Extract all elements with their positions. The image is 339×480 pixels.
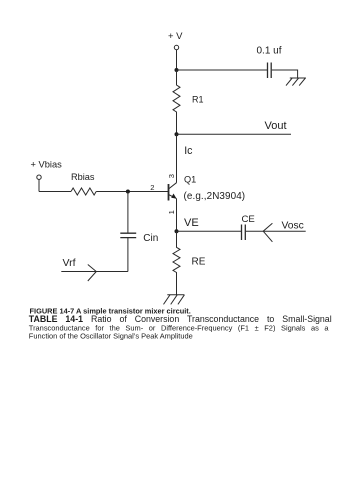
svg-text:CE: CE xyxy=(242,214,255,225)
svg-text:1: 1 xyxy=(167,210,176,214)
junction emitter node xyxy=(175,229,179,233)
resistor R1 xyxy=(173,70,180,134)
wire base node to Cin xyxy=(127,192,129,234)
terminal +V xyxy=(174,45,178,49)
wire Rbias to base xyxy=(96,191,168,193)
wire Vbias to Rbias xyxy=(39,191,71,193)
svg-text:0.1 uf: 0.1 uf xyxy=(257,46,282,57)
resistor Rbias xyxy=(71,188,96,195)
svg-text:2: 2 xyxy=(150,183,154,192)
svg-text:+ V: + V xyxy=(168,31,183,42)
arrow Vrf direction xyxy=(88,265,97,282)
svg-text:(e.g.,2N3904): (e.g.,2N3904) xyxy=(184,191,246,202)
capacitor CE xyxy=(242,225,246,241)
transistor Q1 xyxy=(169,183,177,201)
junction Vout node xyxy=(175,132,179,136)
capacitor Cin xyxy=(120,233,136,237)
wire Vout stub xyxy=(177,133,292,135)
arrow Vosc direction xyxy=(263,223,272,242)
svg-text:+ Vbias: + Vbias xyxy=(31,159,63,169)
svg-text:Vosc: Vosc xyxy=(282,221,304,232)
ground (bottom, chassis) xyxy=(164,295,185,305)
wire emitter xyxy=(176,199,178,232)
svg-text:Function of the Oscillator Sig: Function of the Oscillator Signal’s Peak… xyxy=(29,331,193,340)
wire Cin to Vrf line xyxy=(127,238,129,272)
capacitor 0.1 uf xyxy=(268,63,272,79)
wire +V to top junction xyxy=(176,50,178,70)
resistor RE xyxy=(173,231,180,295)
junction top node xyxy=(175,68,179,72)
wire Vrf input xyxy=(61,271,128,273)
wire cap to ground xyxy=(272,70,298,78)
wire emitter to CE xyxy=(177,230,242,232)
svg-text:VE: VE xyxy=(184,217,199,229)
ground (top right, chassis) xyxy=(286,78,306,86)
svg-text:Vrf: Vrf xyxy=(63,257,76,269)
wire Vbias down xyxy=(38,180,40,192)
svg-text:3: 3 xyxy=(167,174,176,178)
svg-text:R1: R1 xyxy=(192,95,204,105)
svg-text:Rbias: Rbias xyxy=(71,172,95,182)
svg-text:RE: RE xyxy=(192,256,206,267)
junction base node xyxy=(126,190,130,194)
svg-text:Cin: Cin xyxy=(143,233,158,244)
wire top node to bypass cap xyxy=(177,69,268,71)
wire collector xyxy=(176,134,178,182)
wire CE to Vosc xyxy=(246,230,306,232)
svg-text:Ic: Ic xyxy=(184,145,193,157)
terminal +Vbias xyxy=(37,175,41,179)
svg-text:Q1: Q1 xyxy=(184,175,196,185)
transistor Q1 emitter arrowhead xyxy=(171,194,176,199)
svg-text:Vout: Vout xyxy=(265,120,287,132)
